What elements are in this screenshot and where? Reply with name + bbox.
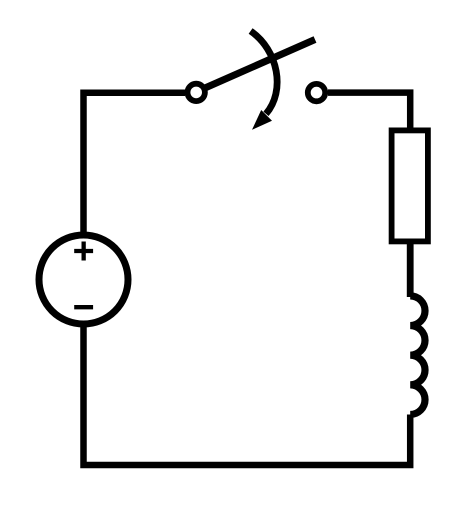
- switch left terminal: [188, 84, 205, 101]
- wire between resistor and inductor: [407, 243, 414, 297]
- wire top-right: from right switch terminal to top-right corner down to resistor: [328, 93, 410, 130]
- minus sign: [74, 305, 93, 309]
- switch arrow head: [252, 110, 272, 130]
- wire top-left: from left switch terminal to top-left corner down the left side: [84, 93, 186, 232]
- inductor L (four right-bulging semicircular arcs): [410, 296, 425, 415]
- resistor R (rectangle body): [392, 130, 428, 241]
- plus sign: [74, 242, 93, 261]
- switch blade (open arm): [197, 40, 315, 92]
- switch right terminal: [308, 84, 325, 101]
- wire bottom loop: from source bottom, down left side, along bottom, up to inductor bottom: [84, 327, 411, 465]
- switch closing arrow (arc): [251, 31, 278, 114]
- voltage source V (circle): [39, 235, 128, 324]
